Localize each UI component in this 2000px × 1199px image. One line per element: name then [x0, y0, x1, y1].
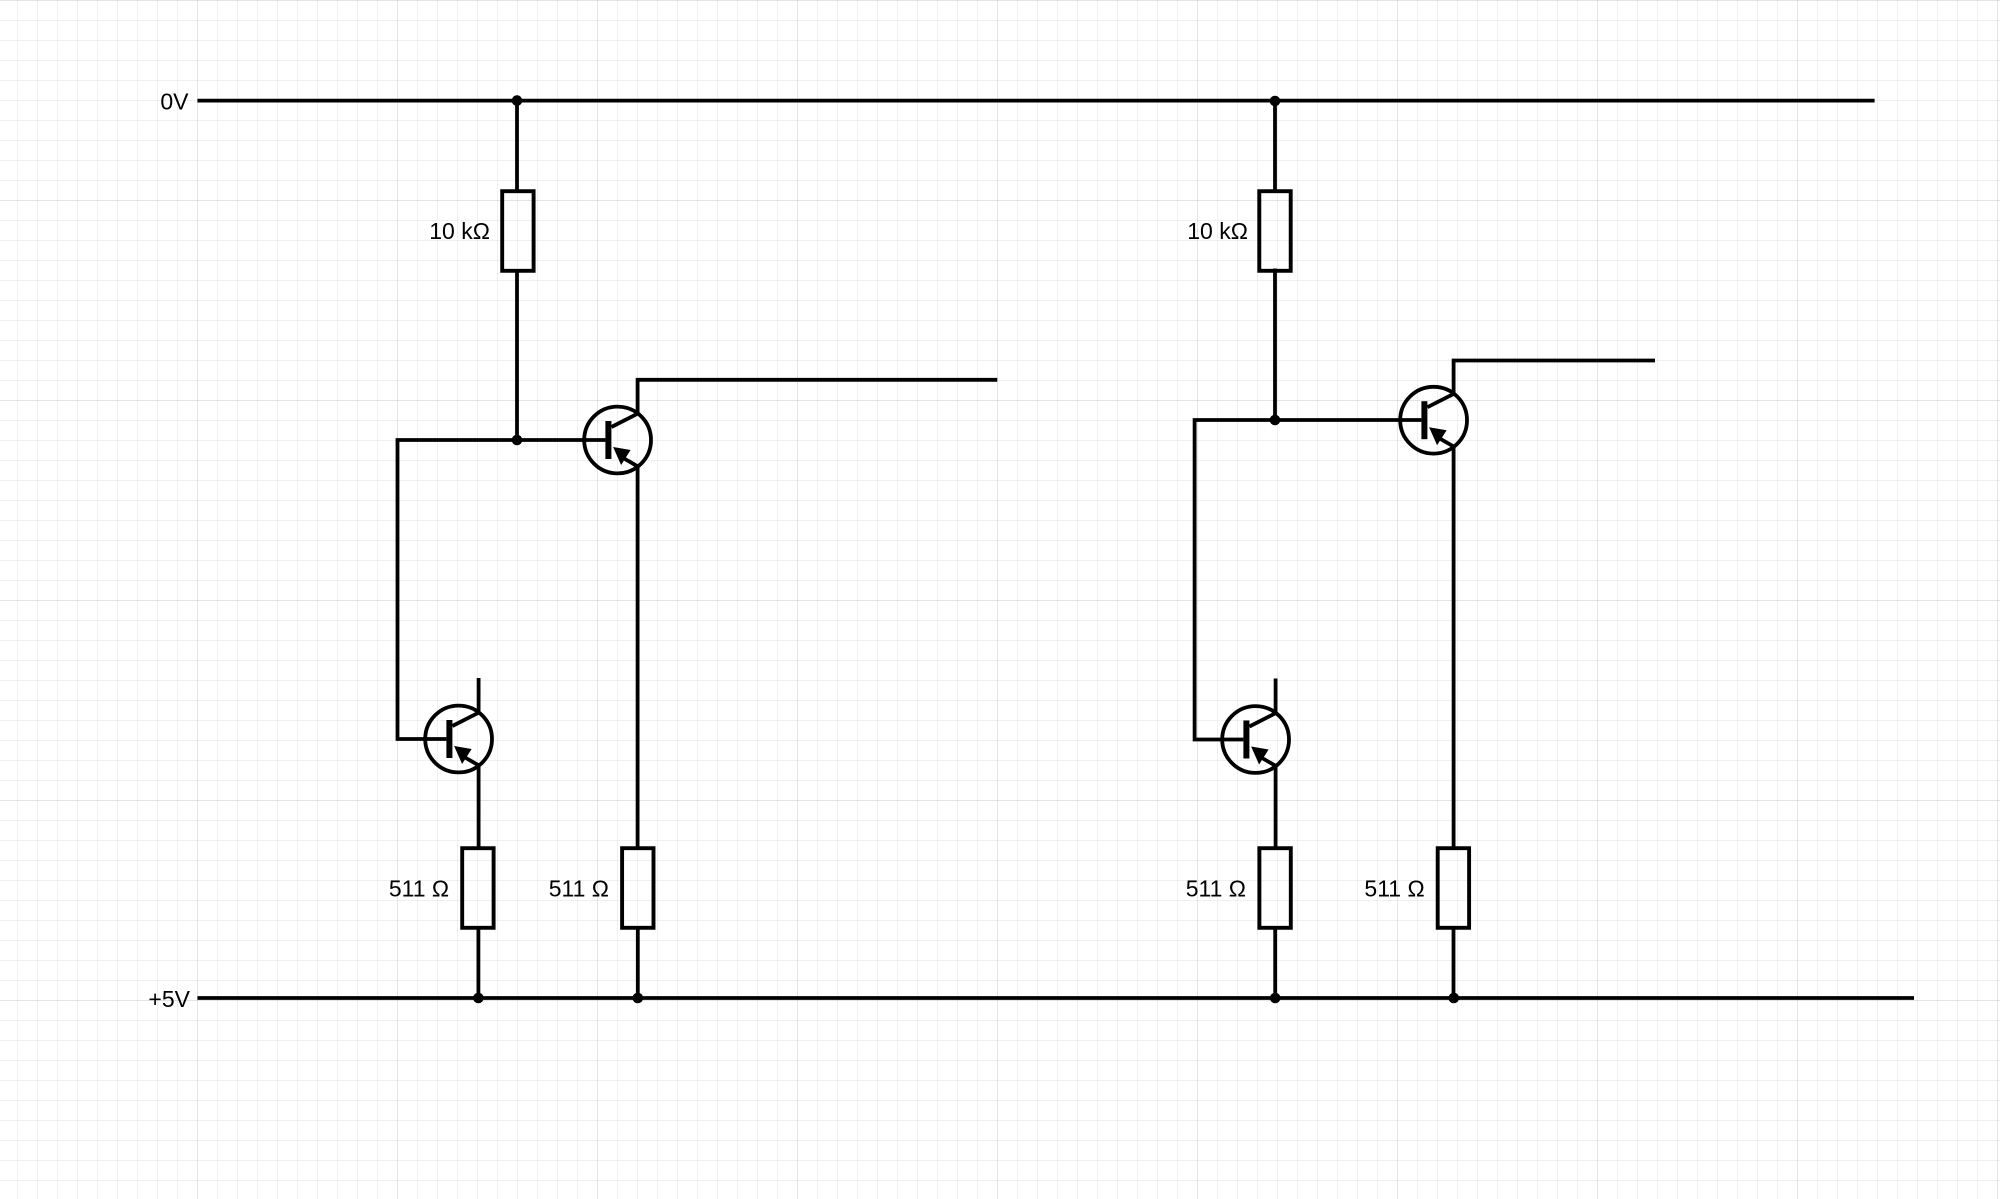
node base junction (right block)	[1270, 415, 1281, 426]
wire Q1 collector to output (left block)	[638, 380, 998, 415]
node junction R3 / +5V rail	[633, 993, 644, 1004]
wire R6 bottom to +5V rail	[1452, 926, 1456, 998]
transistor Q1 (PNP, upper left block)	[584, 407, 651, 474]
resistor R4 10 kOhm	[1259, 191, 1290, 271]
resistor R5 511 Ohm	[1259, 848, 1290, 928]
svg-text:511 Ω: 511 Ω	[1364, 876, 1424, 902]
wire Q2 emitter down to R2	[477, 765, 481, 850]
wire Q4 collector stub	[1274, 679, 1278, 715]
svg-text:10 kΩ: 10 kΩ	[1187, 218, 1248, 244]
wire base net: to Q3 base, left branch down to Q4 base	[1195, 420, 1422, 740]
transistor Q4 (PNP, lower right block)	[1222, 706, 1289, 773]
wire Q1 emitter down to R3	[636, 466, 640, 850]
node base junction (left block)	[512, 435, 523, 446]
node junction on 0V rail (left block)	[512, 95, 523, 106]
wire from R4 bottom to base node	[1273, 269, 1277, 421]
resistor R6 511 Ohm	[1438, 848, 1469, 928]
node junction R6 / +5V rail	[1449, 993, 1460, 1004]
svg-text:10 kΩ: 10 kΩ	[429, 218, 490, 244]
wire +5V bottom rail	[198, 996, 1915, 1000]
node junction on 0V rail (right block)	[1270, 96, 1281, 107]
wire Q3 emitter down to R6	[1452, 446, 1456, 849]
wire Q2 collector stub	[477, 678, 481, 714]
wire R3 bottom to +5V rail	[636, 926, 640, 998]
wire 0V top rail	[198, 99, 1875, 103]
wire R5 bottom to +5V rail	[1273, 926, 1277, 998]
transistor Q2 (PNP, lower left block)	[425, 706, 492, 773]
wire from 0V rail to R4 top	[1273, 101, 1277, 192]
svg-text:511 Ω: 511 Ω	[1186, 876, 1246, 902]
resistor R3 511 Ohm	[622, 848, 653, 928]
wire R2 bottom to +5V rail	[476, 926, 480, 998]
resistor R1 10 kOhm	[502, 191, 533, 271]
node junction R2 / +5V rail	[473, 993, 484, 1004]
svg-text:0V: 0V	[160, 89, 189, 115]
wire Q4 emitter down to R5	[1274, 765, 1278, 849]
wire base net: to Q1 base, left branch down to Q2 base	[398, 440, 606, 739]
wire Q3 collector to output (right block)	[1454, 361, 1655, 395]
transistor Q3 (PNP, upper right block)	[1400, 387, 1467, 454]
svg-text:511 Ω: 511 Ω	[389, 876, 449, 902]
svg-text:+5V: +5V	[148, 986, 190, 1012]
svg-text:511 Ω: 511 Ω	[549, 876, 609, 902]
resistor R2 511 Ohm	[462, 848, 493, 928]
wire from R1 bottom to base node	[515, 269, 519, 440]
wire from 0V rail to R1 top	[515, 101, 519, 192]
node junction R5 / +5V rail	[1270, 993, 1281, 1004]
